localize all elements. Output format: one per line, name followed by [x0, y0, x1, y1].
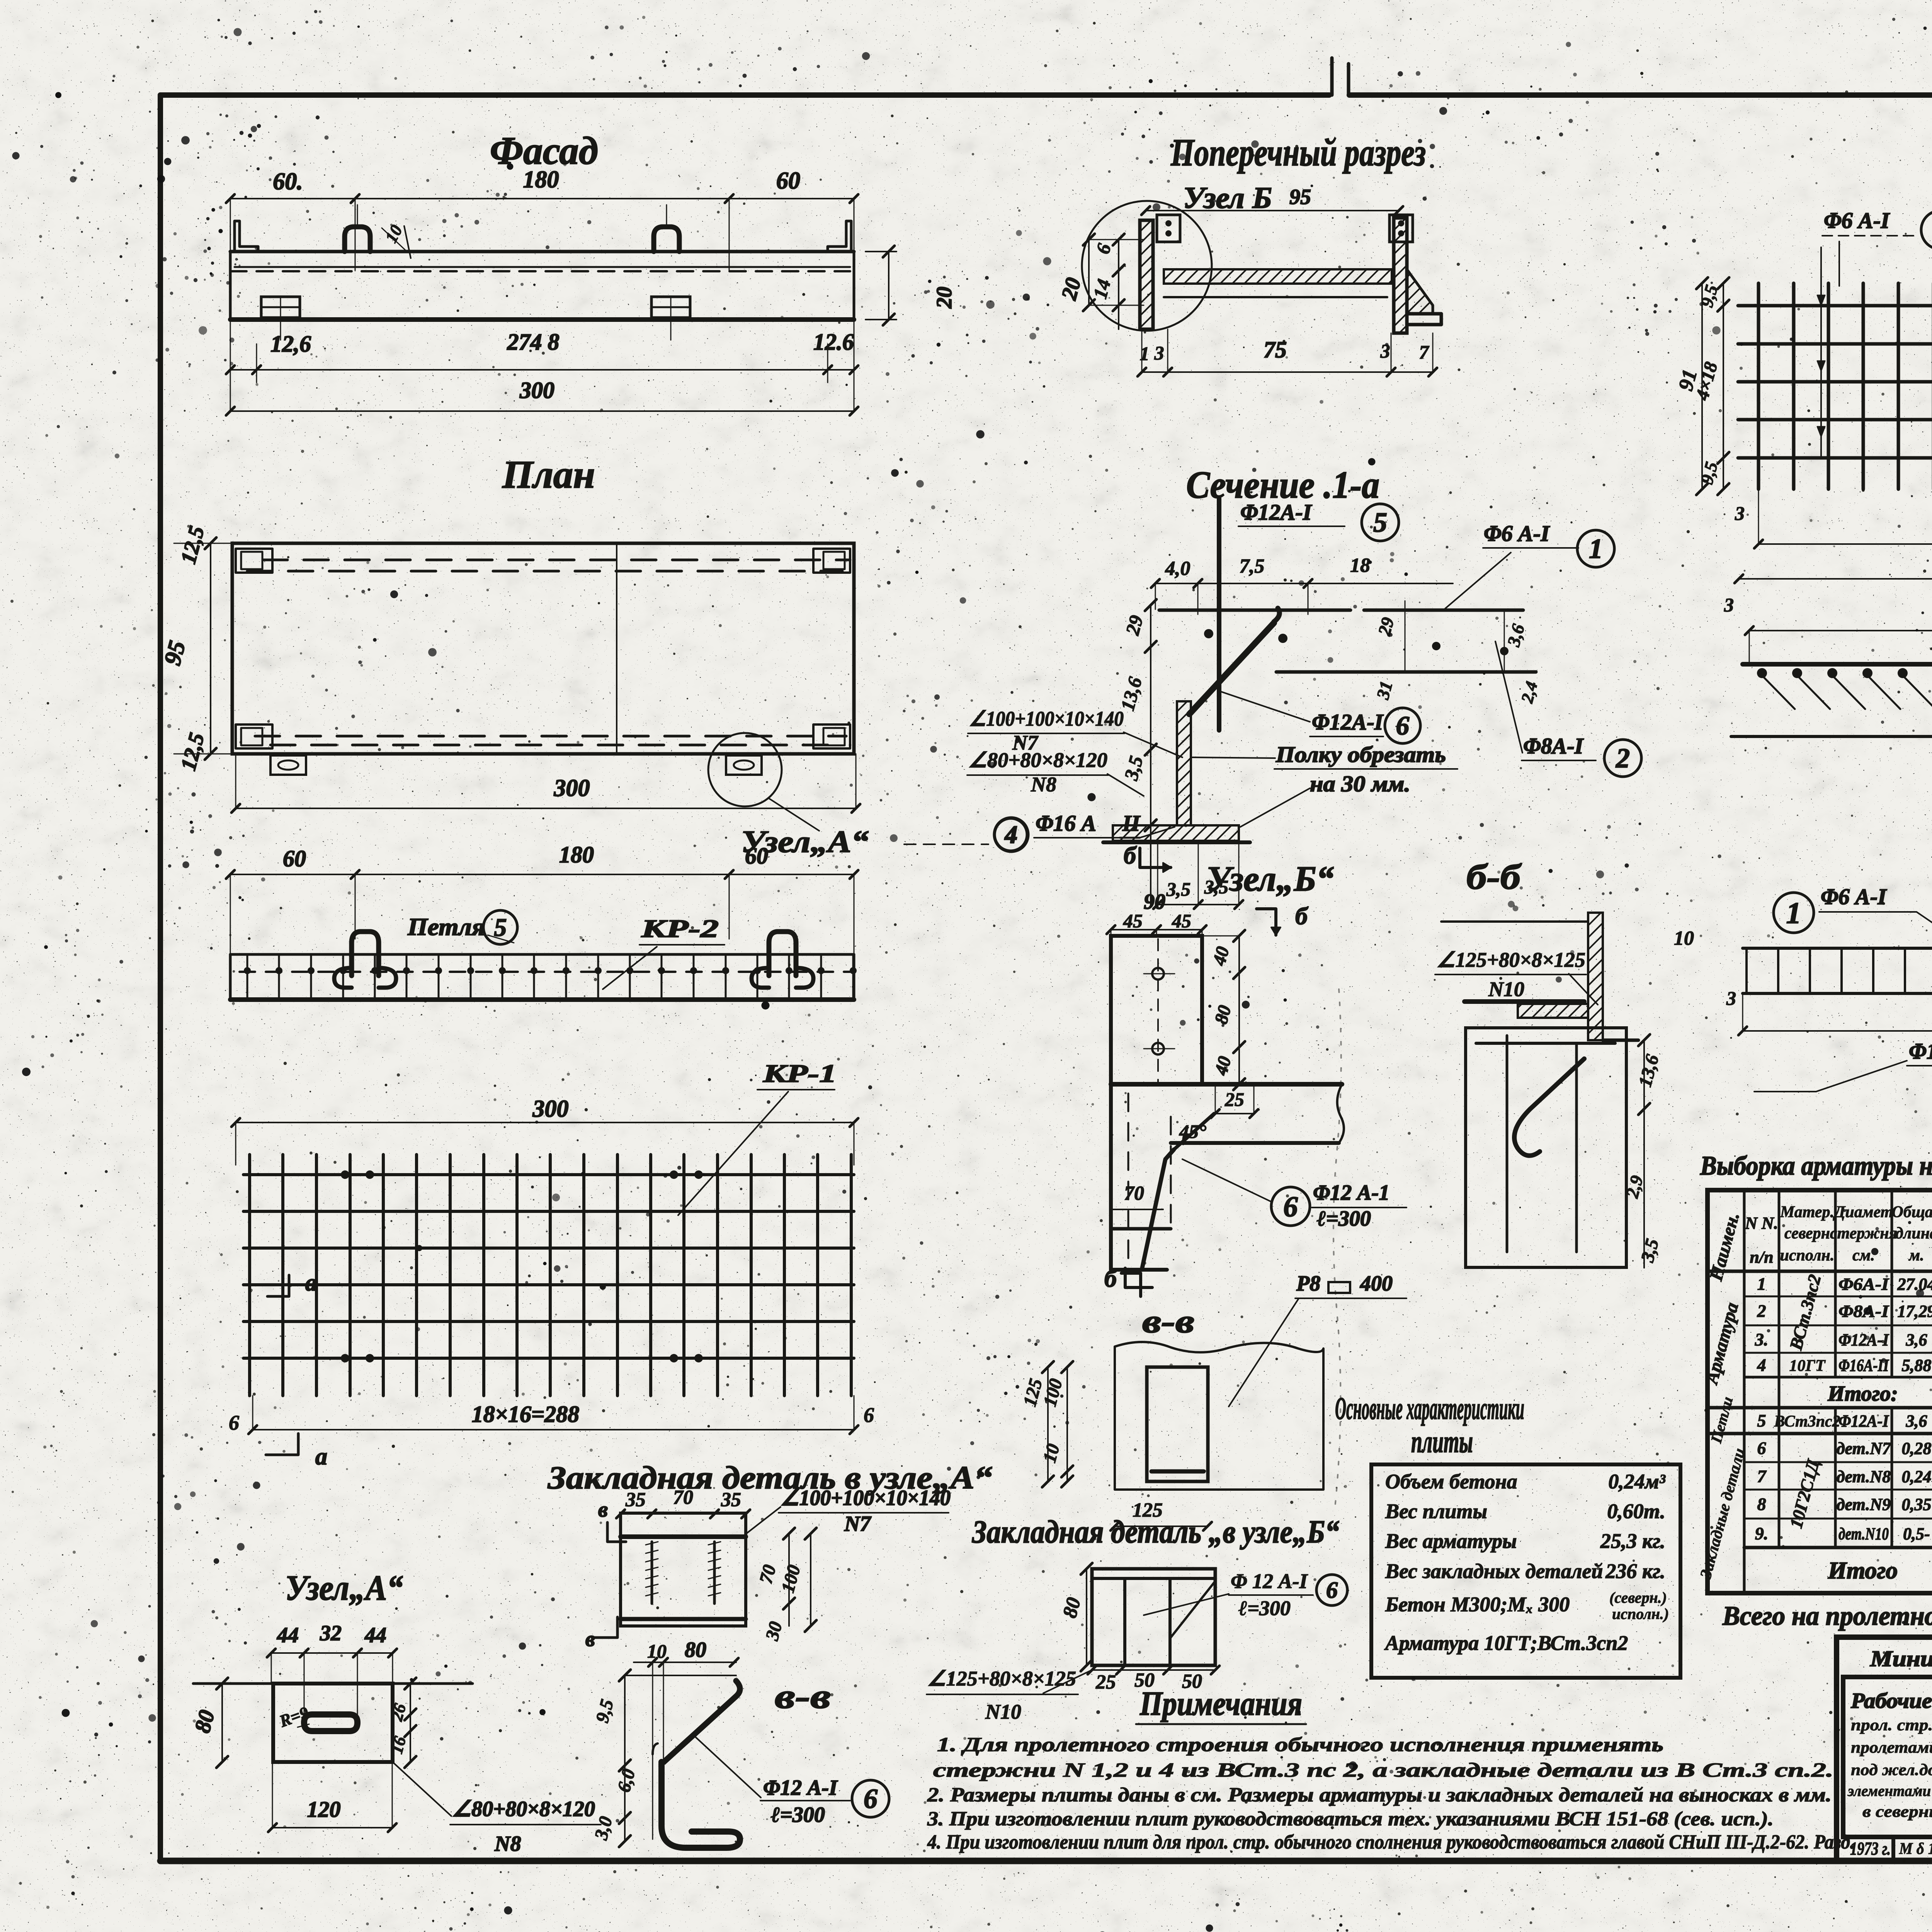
svg-text:10: 10: [1674, 927, 1694, 949]
svg-text:3: 3: [1735, 502, 1745, 524]
svg-text:М δ 1:²⁰: М δ 1:²⁰: [1899, 1840, 1932, 1858]
svg-text:1: 1: [1140, 343, 1150, 364]
svg-text:5: 5: [1757, 1411, 1766, 1430]
svg-text:N8: N8: [494, 1832, 521, 1856]
svg-text:8: 8: [1757, 1494, 1766, 1514]
svg-text:60.: 60.: [273, 168, 303, 195]
svg-text:Вес закладных деталей: Вес закладных деталей: [1385, 1560, 1603, 1583]
svg-text:Φ 12 А-I: Φ 12 А-I: [1231, 1570, 1308, 1593]
svg-text:44: 44: [364, 1623, 386, 1647]
svg-text:Φ6А-I: Φ6А-I: [1838, 1275, 1889, 1294]
svg-text:N10: N10: [1488, 978, 1524, 1001]
svg-text:КР-1: КР-1: [763, 1060, 837, 1088]
svg-text:0,24: 0,24: [1902, 1467, 1932, 1486]
svg-text:95: 95: [1289, 185, 1311, 209]
svg-text:Φ6 А-I: Φ6 А-I: [1821, 884, 1887, 909]
svg-text:3,5: 3,5: [1166, 878, 1191, 900]
svg-text:6: 6: [1396, 711, 1410, 740]
svg-text:2. Размеры плиты даны в см.: 2. Размеры плиты даны в см. Размеры арма…: [927, 1784, 1832, 1806]
svg-text:70: 70: [673, 1486, 693, 1509]
svg-text:Φ12А-I: Φ12А-I: [1240, 500, 1313, 525]
svg-text:ℓ=300: ℓ=300: [771, 1803, 825, 1827]
svg-text:плиты: плиты: [1411, 1424, 1473, 1459]
svg-text:п/п: п/п: [1750, 1248, 1773, 1267]
svg-text:под жел.дор. со сборными: под жел.дор. со сборными: [1851, 1761, 1932, 1779]
svg-text:300: 300: [519, 378, 554, 403]
svg-text:70: 70: [1124, 1182, 1144, 1204]
svg-text:2: 2: [1616, 743, 1630, 774]
svg-text:60: 60: [776, 168, 800, 194]
svg-text:Примечания: Примечания: [1139, 1685, 1302, 1723]
svg-text:м.: м.: [1908, 1247, 1924, 1264]
svg-text:Φ12А-I: Φ12А-I: [1838, 1412, 1889, 1430]
svg-text:Рабочие чертежи: Рабочие чертежи: [1850, 1689, 1932, 1713]
svg-text:400: 400: [1360, 1272, 1393, 1296]
svg-text:дет.N10: дет.N10: [1838, 1524, 1889, 1543]
svg-text:ВСт3пс2: ВСт3пс2: [1774, 1413, 1840, 1430]
svg-text:7: 7: [1419, 341, 1430, 363]
svg-text:1973 г.: 1973 г.: [1850, 1838, 1891, 1859]
svg-text:45: 45: [1123, 910, 1143, 932]
svg-text:18×16=288: 18×16=288: [472, 1401, 579, 1427]
svg-text:3: 3: [1154, 342, 1164, 364]
svg-text:1. Для пролетного строения: 1. Для пролетного строения обычного испо…: [937, 1734, 1663, 1756]
svg-text:пролетами 33-110 м.: пролетами 33-110 м.: [1851, 1739, 1932, 1757]
svg-text:3. При изготовлении плит руков: 3. При изготовлении плит руководствовать…: [927, 1808, 1774, 1830]
svg-text:ℓ=300: ℓ=300: [1238, 1597, 1291, 1620]
svg-text:4: 4: [1757, 1355, 1766, 1375]
svg-text:90: 90: [1144, 890, 1165, 914]
svg-text:Министерство транспортного с: Министерство транспортного строительство…: [1870, 1646, 1932, 1671]
svg-text:прол. стр. с ездой понизу: прол. стр. с ездой понизу: [1851, 1716, 1932, 1734]
svg-text:∠100+100×10×140: ∠100+100×10×140: [969, 707, 1124, 730]
svg-text:Φ16 А: Φ16 А: [1036, 811, 1096, 836]
svg-text:12.6: 12.6: [813, 329, 854, 355]
svg-text:18: 18: [1350, 554, 1370, 577]
svg-text:Объем бетона: Объем бетона: [1385, 1470, 1517, 1493]
svg-text:180: 180: [523, 167, 559, 193]
svg-text:5,88: 5,88: [1902, 1356, 1932, 1375]
svg-text:(северн.): (северн.): [1609, 1589, 1667, 1606]
svg-text:0,35: 0,35: [1902, 1495, 1932, 1514]
svg-text:в: в: [598, 1498, 608, 1522]
svg-text:3: 3: [1380, 340, 1390, 362]
svg-text:35: 35: [721, 1489, 741, 1511]
svg-text:N7: N7: [844, 1512, 871, 1536]
svg-text:0,60т.: 0,60т.: [1607, 1500, 1665, 1523]
svg-text:Диамет: Диамет: [1833, 1203, 1893, 1221]
svg-text:274 8: 274 8: [507, 329, 560, 355]
svg-text:∠80+80×8×120: ∠80+80×8×120: [968, 748, 1107, 772]
svg-text:125: 125: [1133, 1499, 1163, 1521]
svg-text:45: 45: [1172, 910, 1191, 932]
svg-text:60: 60: [283, 846, 306, 871]
svg-text:6: 6: [1757, 1438, 1766, 1458]
svg-text:∠80+80×8×120: ∠80+80×8×120: [452, 1797, 595, 1821]
svg-text:Φ12А-I: Φ12А-I: [1312, 709, 1384, 735]
svg-text:Φ8А-I: Φ8А-I: [1523, 733, 1584, 759]
svg-text:элементами для использования: элементами для использования: [1847, 1782, 1932, 1799]
svg-text:120: 120: [307, 1797, 341, 1822]
svg-text:Φ12А-I: Φ12А-I: [1838, 1330, 1889, 1349]
svg-text:25: 25: [1225, 1088, 1244, 1110]
svg-text:6: 6: [864, 1783, 878, 1814]
svg-text:3: 3: [1726, 987, 1736, 1009]
svg-text:0,24м³: 0,24м³: [1608, 1470, 1665, 1493]
svg-text:0,28: 0,28: [1902, 1439, 1932, 1458]
svg-text:План: План: [502, 453, 595, 497]
svg-text:в: в: [585, 1627, 595, 1651]
svg-text:25,3 кг.: 25,3 кг.: [1600, 1529, 1665, 1553]
svg-text:7: 7: [1757, 1466, 1767, 1486]
svg-text:северн: северн: [1784, 1225, 1830, 1242]
svg-text:исполн.: исполн.: [1780, 1247, 1835, 1264]
svg-text:в северных районах: в северных районах: [1862, 1803, 1932, 1821]
svg-text:10ГТ: 10ГТ: [1789, 1357, 1826, 1375]
svg-text:II: II: [1122, 811, 1141, 836]
svg-text:Итого: Итого: [1828, 1558, 1898, 1584]
svg-text:Узел Б: Узел Б: [1183, 181, 1272, 214]
svg-text:9.: 9.: [1755, 1524, 1769, 1543]
svg-text:6: 6: [1283, 1191, 1298, 1223]
svg-text:Φ12 А-I: Φ12 А-I: [763, 1776, 838, 1800]
svg-text:32: 32: [320, 1621, 342, 1645]
svg-text:3,6: 3,6: [1906, 1412, 1927, 1430]
svg-text:б: б: [1295, 902, 1309, 930]
svg-text:КР-2: КР-2: [641, 915, 719, 943]
svg-text:Φ6 А-I: Φ6 А-I: [1484, 521, 1550, 546]
svg-text:в-в: в-в: [775, 1677, 831, 1716]
svg-text:6: 6: [1326, 1577, 1338, 1603]
svg-text:Узел„Б“: Узел„Б“: [1206, 859, 1334, 898]
svg-text:б-б: б-б: [1466, 857, 1522, 896]
svg-text:Вес плиты: Вес плиты: [1385, 1500, 1487, 1523]
svg-text:ℓ=300: ℓ=300: [1317, 1207, 1371, 1231]
svg-text:Петля: Петля: [407, 913, 485, 940]
svg-text:180: 180: [559, 842, 594, 867]
svg-text:3,6: 3,6: [1906, 1330, 1927, 1349]
svg-text:3: 3: [1724, 594, 1734, 616]
svg-text:Основные характеристики: Основные характеристики: [1335, 1391, 1524, 1426]
svg-text:Φ6 А-I: Φ6 А-I: [1824, 208, 1890, 233]
svg-text:на 30 мм.: на 30 мм.: [1310, 771, 1410, 796]
svg-text:25: 25: [1095, 1671, 1116, 1693]
svg-text:7,5: 7,5: [1240, 555, 1265, 577]
svg-text:Р8: Р8: [1296, 1272, 1320, 1296]
svg-text:2: 2: [1757, 1301, 1766, 1321]
svg-text:длина: длина: [1895, 1225, 1932, 1242]
svg-text:см.: см.: [1852, 1247, 1875, 1264]
svg-text:а: а: [315, 1444, 327, 1470]
svg-text:N10: N10: [985, 1700, 1021, 1723]
svg-text:Φ12 А-1: Φ12 А-1: [1313, 1181, 1389, 1205]
svg-text:исполн.): исполн.): [1612, 1605, 1669, 1622]
svg-text:Арматура 10ГТ;ВСт.3сп2: Арматура 10ГТ;ВСт.3сп2: [1384, 1631, 1628, 1655]
svg-text:1: 1: [1786, 896, 1801, 930]
svg-text:Бетон М300;Мₓ 300: Бетон М300;Мₓ 300: [1385, 1593, 1570, 1616]
svg-text:в-в: в-в: [1142, 1303, 1194, 1340]
svg-text:3.: 3.: [1755, 1330, 1769, 1349]
svg-text:1: 1: [1757, 1274, 1766, 1294]
svg-text:27.04: 27.04: [1897, 1275, 1932, 1294]
svg-text:Матер.: Матер.: [1780, 1203, 1834, 1221]
svg-text:4,0: 4,0: [1165, 558, 1190, 580]
svg-text:6: 6: [229, 1411, 239, 1434]
svg-text:20: 20: [932, 287, 956, 309]
svg-text:60: 60: [745, 843, 768, 869]
svg-text:44: 44: [277, 1623, 299, 1647]
svg-text:80: 80: [685, 1638, 706, 1662]
svg-text:Полку обрезать: Полку обрезать: [1276, 742, 1446, 767]
svg-text:дет.N8: дет.N8: [1837, 1467, 1891, 1486]
svg-text:Общая: Общая: [1892, 1203, 1932, 1221]
svg-text:Узел„А“: Узел„А“: [285, 1568, 403, 1607]
svg-text:Φ16 А-II ℓ=2940: Φ16 А-II ℓ=2940: [1909, 1039, 1932, 1064]
svg-text:∠100+100×10×140: ∠100+100×10×140: [781, 1486, 951, 1510]
svg-text:N N.: N N.: [1745, 1214, 1778, 1233]
svg-text:300: 300: [554, 775, 590, 801]
svg-text:4. При изготовлении плит для п: 4. При изготовлении плит для прол. стр. …: [927, 1831, 1855, 1853]
svg-text:Φ16А-II: Φ16А-II: [1838, 1356, 1889, 1375]
svg-text:∠125+80×8×125: ∠125+80×8×125: [927, 1667, 1076, 1690]
svg-text:35: 35: [625, 1489, 646, 1511]
svg-text:б: б: [1124, 842, 1137, 869]
svg-text:∠125+80×8×125: ∠125+80×8×125: [1437, 948, 1585, 971]
svg-text:Итого:: Итого:: [1827, 1382, 1898, 1406]
svg-text:4: 4: [1004, 821, 1018, 849]
svg-text:дет.N7: дет.N7: [1837, 1439, 1891, 1458]
svg-text:6: 6: [864, 1403, 874, 1427]
svg-text:стержни N 1,2 и 4 из ВСт.3 п: стержни N 1,2 и 4 из ВСт.3 пс 2, а закла…: [933, 1759, 1833, 1781]
svg-text:N8: N8: [1031, 773, 1056, 796]
svg-text:0,5-: 0,5-: [1903, 1524, 1930, 1543]
svg-text:а: а: [305, 1270, 317, 1296]
svg-text:Всего на пролетное строение: Всего на пролетное строение плит ПУ-7 шт…: [1722, 1601, 1932, 1631]
svg-text:17,29: 17,29: [1898, 1302, 1932, 1321]
svg-text:12,6: 12,6: [270, 331, 311, 357]
svg-text:стержня: стержня: [1830, 1225, 1897, 1242]
svg-text:300: 300: [532, 1096, 569, 1122]
svg-text:Вес арматуры: Вес арматуры: [1385, 1529, 1517, 1553]
svg-text:Поперечный разрез: Поперечный разрез: [1170, 131, 1426, 174]
svg-text:б: б: [1104, 1265, 1118, 1292]
svg-text:1: 1: [1589, 533, 1603, 564]
svg-text:236 кг.: 236 кг.: [1605, 1560, 1665, 1583]
svg-text:дет.N9: дет.N9: [1837, 1495, 1891, 1514]
